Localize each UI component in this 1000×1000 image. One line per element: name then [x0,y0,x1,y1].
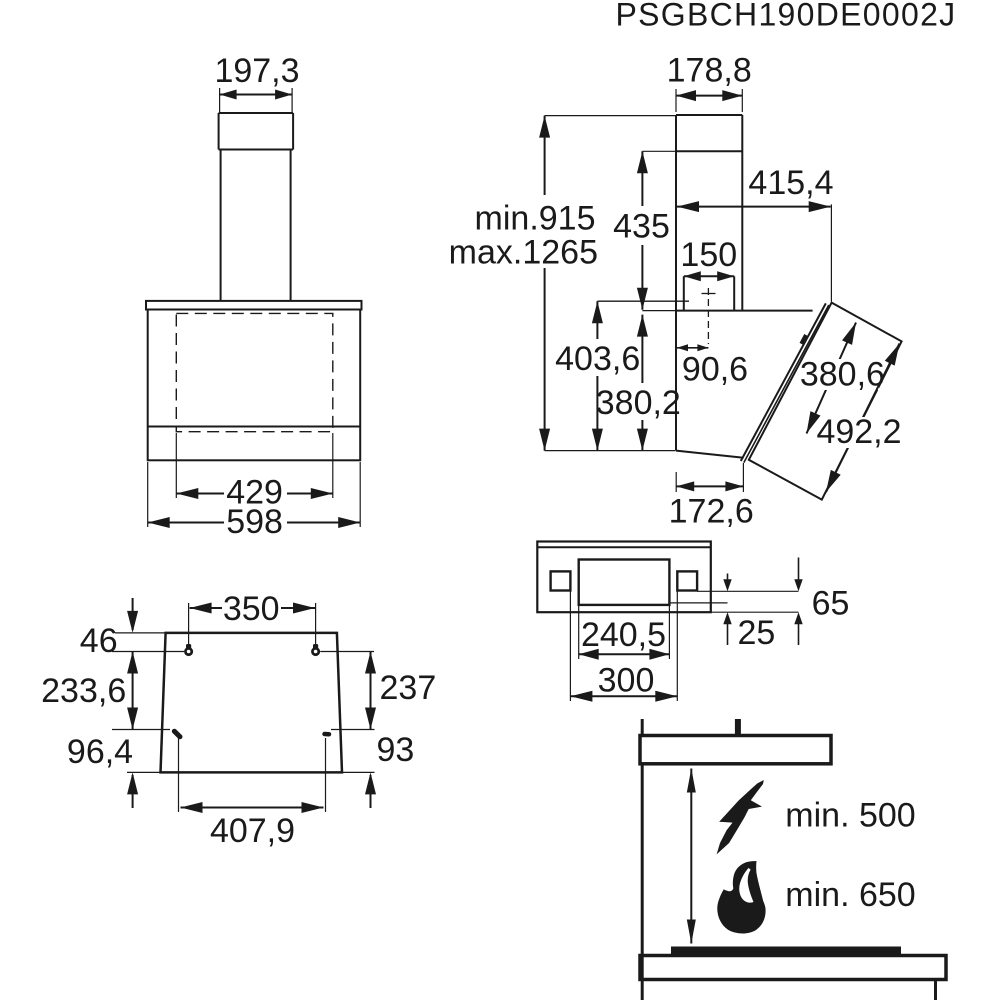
svg-text:435: 435 [613,208,670,246]
svg-text:min. 650: min. 650 [785,876,915,914]
svg-text:598: 598 [226,503,283,541]
svg-text:407,9: 407,9 [210,812,295,850]
svg-text:93: 93 [377,731,415,769]
svg-text:233,6: 233,6 [41,672,126,710]
svg-text:492,2: 492,2 [816,413,901,451]
svg-text:25: 25 [738,614,776,652]
svg-text:403,6: 403,6 [555,340,640,378]
svg-text:150: 150 [680,236,737,274]
svg-text:300: 300 [598,662,655,700]
svg-text:46: 46 [80,622,118,660]
svg-text:96,4: 96,4 [67,733,133,771]
svg-text:90,6: 90,6 [682,351,748,389]
svg-text:172,6: 172,6 [669,493,754,531]
svg-text:min. 500: min. 500 [785,797,915,835]
svg-text:380,2: 380,2 [596,384,681,422]
svg-text:178,8: 178,8 [667,52,752,90]
svg-text:380,6: 380,6 [800,356,885,394]
svg-text:197,3: 197,3 [214,52,299,90]
svg-text:415,4: 415,4 [748,164,833,202]
svg-text:max.1265: max.1265 [449,234,598,272]
svg-text:min.915: min.915 [475,200,596,238]
svg-text:237: 237 [380,669,437,707]
svg-text:PSGBCH190DE0002J: PSGBCH190DE0002J [616,0,957,33]
svg-text:350: 350 [223,590,280,628]
svg-text:65: 65 [812,585,850,623]
svg-text:240,5: 240,5 [581,616,666,654]
